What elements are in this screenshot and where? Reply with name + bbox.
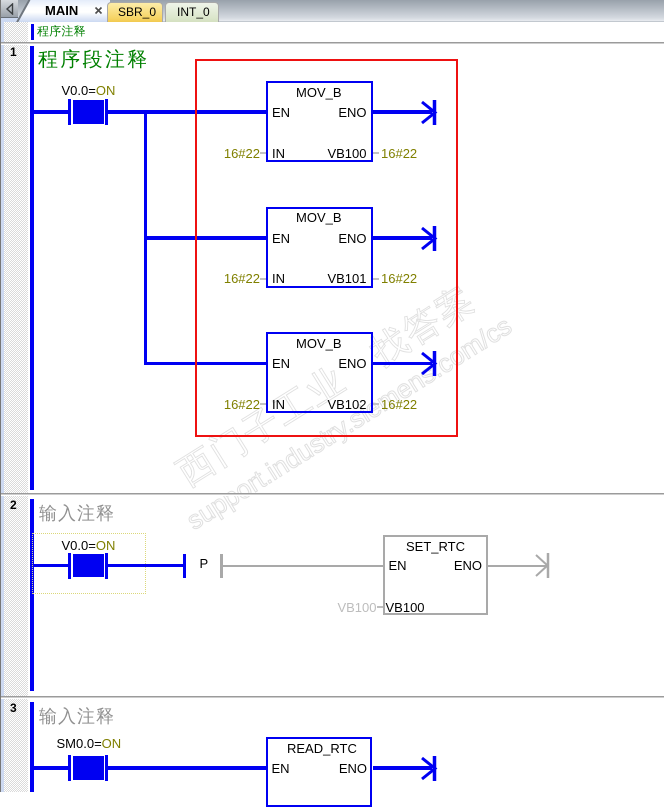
MOV_B U3 pin ENO xyxy=(338,357,366,370)
watermark xyxy=(152,208,629,558)
MOV_B U1 pin EN xyxy=(272,106,290,119)
wire rail to contact V0.0 xyxy=(34,110,68,114)
SET_RTC pin EN xyxy=(389,559,407,572)
MOV_B U1 output arrow xyxy=(420,100,440,125)
wire MOV_B U3 output wire xyxy=(373,362,432,366)
READ_RTC title xyxy=(287,742,357,755)
MOV_B U2 pin OUT operand VB101 xyxy=(327,272,366,285)
left pane border xyxy=(0,0,1,792)
wire network 2 power rail xyxy=(30,499,34,691)
contact SM0.0 (network 3) right bar xyxy=(105,755,109,781)
SET_RTC T operand old value xyxy=(337,601,376,614)
left blue strip xyxy=(1,22,4,792)
wire READ_RTC output wire xyxy=(373,766,432,770)
tab nav button xyxy=(1,0,18,18)
SET_RTC pin ENO xyxy=(454,559,482,572)
contact V0.0 (network 2) left bar xyxy=(68,553,72,579)
wire SET_RTC output wire xyxy=(488,565,547,567)
MOV_B U2 IN pin tick xyxy=(260,278,266,280)
program comment marker bar xyxy=(31,24,34,40)
READ_RTC pin EN xyxy=(272,762,290,775)
checkered gutter xyxy=(4,22,28,792)
MOV_B U1 OUT pin tick xyxy=(373,152,379,154)
MOV_B U1 pin OUT operand VB100 xyxy=(327,147,366,160)
MOV_B U2 OUT value 16#22 xyxy=(381,272,417,285)
MOV_B U1 IN pin tick xyxy=(260,152,266,154)
SET_RTC output arrow (gray) xyxy=(534,553,554,578)
MAIN tab xyxy=(0,0,110,22)
separator network 2/3 xyxy=(1,696,664,699)
separator above network 1 xyxy=(1,42,664,45)
MOV_B U2 OUT pin tick xyxy=(373,278,379,280)
MAIN tab close icon xyxy=(94,6,103,15)
INT_0 tab label xyxy=(177,6,210,18)
MOV_B U1 pin ENO xyxy=(338,106,366,119)
tab diagonal edge xyxy=(16,0,30,24)
MOV_B U3 OUT pin tick xyxy=(373,403,379,405)
MOV_B U2 pin EN xyxy=(272,232,290,245)
network 1 number xyxy=(10,46,17,58)
MOV_B U2 pin IN xyxy=(272,272,285,285)
MOV_B U2 IN value 16#22 xyxy=(224,272,260,285)
P contact label xyxy=(200,557,209,570)
MOV_B U3 OUT value 16#22 xyxy=(381,398,417,411)
network 3 number xyxy=(10,702,17,714)
READ_RTC box U5 xyxy=(266,737,372,807)
MOV_B U3 IN value 16#22 xyxy=(224,398,260,411)
network 2 number xyxy=(10,499,17,511)
wire network 3 power rail xyxy=(30,702,34,792)
edit cursor dotted box xyxy=(32,533,146,594)
SBR_0 tab label xyxy=(118,6,156,18)
SET_RTC title xyxy=(406,540,465,553)
MOV_B box U2 xyxy=(266,207,373,288)
contact V0.0 label xyxy=(62,84,116,97)
READ_RTC output arrow xyxy=(420,756,440,781)
wire contact V0.0 to branch/EN xyxy=(108,110,266,114)
MOV_B U3 pin EN xyxy=(272,357,290,370)
SET_RTC T pin tick xyxy=(377,606,383,608)
MOV_B box U3 xyxy=(266,332,373,413)
contact SM0.0 (network 3) energized square xyxy=(73,756,104,780)
MOV_B U1 OUT value 16#22 xyxy=(381,147,417,160)
wire network 1 power rail xyxy=(30,46,34,490)
network 3 title comment xyxy=(39,707,115,725)
SET_RTC pin T operand VB100 xyxy=(386,601,425,614)
MOV_B U3 pin OUT operand VB102 xyxy=(327,398,366,411)
separator network 1/2 xyxy=(1,493,664,496)
wire rail to contact SM0.0 xyxy=(34,766,68,770)
P contact left bar xyxy=(183,554,186,578)
contact V0.0 (network 2) energized square xyxy=(73,554,104,578)
contact V0.0 (network 2) right bar xyxy=(105,553,109,579)
MAIN tab underlay xyxy=(0,16,110,22)
wire branch to MOV_B 2 EN xyxy=(145,236,266,240)
READ_RTC pin ENO xyxy=(339,762,367,775)
P contact right bar xyxy=(220,554,223,578)
wire branch junction xyxy=(144,111,147,365)
wire MOV_B U2 output wire xyxy=(373,236,432,240)
contact SM0.0 (network 3) left bar xyxy=(68,755,72,781)
MOV_B U2 title xyxy=(296,211,342,224)
MOV_B U1 title xyxy=(296,86,342,99)
wire branch to MOV_B 3 EN xyxy=(145,362,266,366)
SBR_0 tab xyxy=(107,2,163,22)
network 2 title comment xyxy=(39,504,115,522)
contact V0.0 (network 1) right bar xyxy=(105,99,109,125)
MOV_B U3 title xyxy=(296,337,342,350)
INT_0 tab xyxy=(165,2,219,22)
tab nav arrow xyxy=(5,3,14,15)
wire P contact to SET_RTC EN (gray) xyxy=(223,565,383,567)
SET_RTC box U4 xyxy=(383,535,489,615)
MOV_B U3 output arrow xyxy=(420,351,440,376)
wire MOV_B U1 output wire xyxy=(373,110,432,114)
network 1 title comment xyxy=(38,49,150,69)
wire contact V0.0 to P contact xyxy=(108,564,184,568)
tab bar background xyxy=(0,0,664,22)
contact V0.0 (network 1) left bar xyxy=(68,99,72,125)
wire rail to contact V0.0 net2 xyxy=(34,564,68,568)
MOV_B U1 pin IN xyxy=(272,147,285,160)
selection rectangle xyxy=(195,59,458,437)
MOV_B U3 pin IN xyxy=(272,398,285,411)
MOV_B U2 pin ENO xyxy=(338,232,366,245)
program comment text xyxy=(37,25,86,37)
MAIN tab label xyxy=(45,4,78,17)
MOV_B U1 IN value 16#22 xyxy=(224,147,260,160)
contact V0.0 (network 1) energized square xyxy=(73,100,104,124)
contact SM0.0 label xyxy=(57,737,122,750)
contact V0.0 label (network 2) xyxy=(62,539,116,552)
MOV_B U3 IN pin tick xyxy=(260,403,266,405)
MOV_B box U1 xyxy=(266,81,373,162)
wire contact SM0.0 to READ_RTC EN xyxy=(108,766,266,770)
MOV_B U2 output arrow xyxy=(420,226,440,251)
